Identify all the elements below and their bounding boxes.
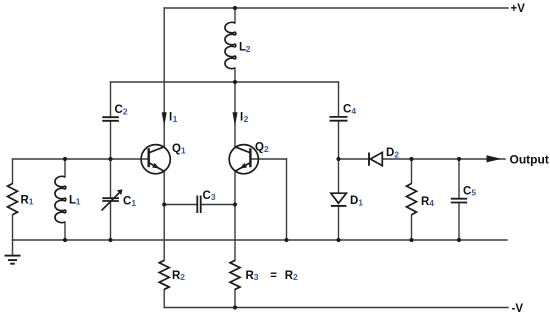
svg-text:C: C — [343, 104, 351, 116]
svg-text:Output: Output — [510, 152, 549, 166]
svg-text:C: C — [123, 196, 131, 208]
svg-text:D: D — [350, 195, 358, 207]
svg-text:-V: -V — [512, 303, 524, 315]
svg-text:4: 4 — [351, 106, 356, 116]
svg-text:4: 4 — [429, 198, 434, 208]
svg-text:C: C — [203, 190, 211, 202]
svg-text:+V: +V — [511, 3, 526, 15]
svg-text:1: 1 — [173, 114, 178, 124]
svg-text:5: 5 — [471, 188, 476, 198]
svg-text:2: 2 — [180, 272, 185, 282]
svg-text:1: 1 — [29, 197, 34, 207]
svg-text:2: 2 — [244, 114, 249, 124]
svg-text:3: 3 — [254, 272, 259, 282]
svg-text:Q: Q — [255, 142, 264, 154]
svg-text:2: 2 — [264, 144, 269, 154]
svg-text:D: D — [386, 147, 394, 159]
svg-text:1: 1 — [76, 197, 81, 207]
svg-text:C: C — [115, 104, 123, 116]
svg-text:1: 1 — [131, 198, 136, 208]
svg-text:3: 3 — [211, 192, 216, 202]
svg-text:2: 2 — [293, 272, 298, 282]
svg-text:2: 2 — [246, 44, 251, 54]
svg-text:=: = — [270, 270, 277, 282]
svg-text:C: C — [463, 185, 471, 197]
svg-text:2: 2 — [123, 107, 128, 117]
svg-text:Q: Q — [172, 143, 181, 155]
svg-text:1: 1 — [358, 198, 363, 208]
svg-text:2: 2 — [394, 150, 399, 160]
svg-text:1: 1 — [181, 146, 186, 156]
